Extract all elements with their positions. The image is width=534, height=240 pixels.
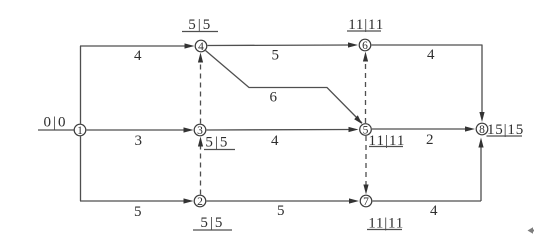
wire: edge 7-8 horizontal segment [373,200,482,202]
node 1 [74,124,86,136]
svg-text:2: 2 [197,196,203,208]
arrowhead into node 8 from bottom [478,138,483,148]
arrowhead into node 4 from below [198,53,203,63]
arrowhead into node 8 from left [465,126,475,131]
node 4 label underline [182,31,218,33]
node 4 [195,40,207,52]
node 2 label underline [193,229,232,231]
wire: edge 7-8 vertical segment [480,146,482,201]
node 6 [359,39,371,51]
wire: edge 3-5 [207,129,353,132]
arrowhead into node 7 from left [349,198,359,203]
node 8 label underline [487,135,523,137]
wire: dashed dummy 3-4 [200,60,202,124]
arrowhead into node 4 from left [185,43,195,48]
arrowhead into node 5 from left [349,127,359,132]
svg-text:3: 3 [197,125,203,137]
node 3 [194,124,206,136]
node 2 [194,195,206,207]
svg-text:4: 4 [427,47,435,63]
svg-text:5|5: 5|5 [205,135,229,151]
svg-text:5: 5 [272,48,280,64]
node 8 [476,123,488,135]
wire: dashed dummy 5-6 [365,60,367,123]
wire: edge 6-8 vertical segment [481,45,483,115]
wire: edge 5-8 [372,128,467,130]
svg-text:4: 4 [134,48,142,64]
wire: edge 1-3 [87,129,189,131]
wire: dashed dummy 5-7 [365,136,367,185]
node 3 label underline [204,149,235,151]
wire: edge 1-4 vertical segment [80,46,82,124]
wire: edge 4-6 [208,44,352,47]
svg-text:5|5: 5|5 [200,215,224,231]
svg-text:7: 7 [363,196,369,208]
decorative small left arrow bottom-right [528,227,534,234]
svg-text:5|5: 5|5 [188,17,212,33]
svg-text:4: 4 [430,203,438,219]
wire: dashed dummy 2-3 [200,145,202,195]
arrowhead into node 3 from below [198,137,203,147]
arrowhead into node 2 from left [184,198,194,203]
svg-text:1: 1 [77,125,83,137]
wire: edge 1-2 vertical segment [80,136,82,201]
svg-text:8: 8 [479,124,485,136]
wire: edge 1-4 horizontal segment [80,45,186,47]
svg-text:0|0: 0|0 [44,115,68,131]
wire: edge 6-8 horizontal segment [372,44,483,46]
wire: edge 1-2 horizontal segment [80,200,186,202]
node 5 [360,124,372,136]
svg-text:6: 6 [270,89,278,105]
svg-text:3: 3 [135,133,143,149]
arrowhead into node 3 from left [184,127,194,132]
wire: edge 2-7 [207,200,353,202]
node 7 label underline [367,229,402,231]
arrowhead into node 7 from above [363,185,368,195]
svg-text:6: 6 [362,40,368,52]
node 6 label underline [347,30,381,32]
arrowhead into node 5 from upper-left diagonal [354,115,362,124]
svg-text:4: 4 [271,133,279,149]
wire: start line / underline of 0|0 into node 1 [38,129,74,131]
arrowhead into node 8 from top [479,112,484,122]
svg-text:4: 4 [198,41,204,53]
arrowhead into node 6 from left [348,42,358,47]
arrowhead into node 6 from below [363,52,368,62]
svg-text:5: 5 [277,203,285,219]
wire: edge 4-5 polyline (activity 6) [206,51,363,124]
node 5 label underline [369,146,403,148]
svg-text:5: 5 [134,204,142,220]
node 7 [360,195,372,207]
svg-text:2: 2 [426,132,434,148]
